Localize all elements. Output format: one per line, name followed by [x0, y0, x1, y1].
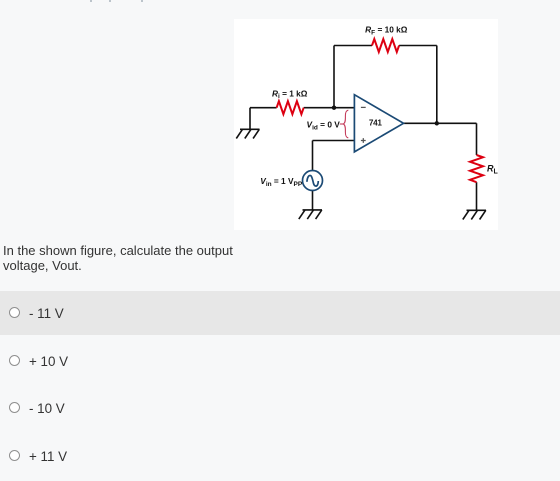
brace tick [340, 123, 343, 125]
wire non-inverting input horizontal [313, 140, 355, 142]
wire feedback top left segment [334, 45, 372, 47]
option 1 label [29, 306, 64, 321]
resistor RL zigzag [470, 155, 483, 182]
resistor Ri zigzag [277, 101, 304, 114]
svg-text:741: 741 [369, 119, 383, 128]
wire feedback top right segment [399, 45, 437, 47]
svg-text:RF = 10 kΩ: RF = 10 kΩ [365, 25, 408, 37]
wire feedback right vertical [436, 46, 438, 124]
source Vin circle [303, 171, 323, 191]
option 2 radio [9, 355, 20, 366]
node output junction dot [435, 121, 439, 125]
wire feedback left vertical [333, 46, 335, 108]
option 1 radio [9, 307, 20, 318]
wire RL bottom [476, 182, 478, 210]
svg-text:Ri = 1 kΩ: Ri = 1 kΩ [272, 88, 308, 100]
ground source [299, 210, 322, 219]
brace Vid red [343, 110, 348, 138]
ground RL [463, 210, 486, 219]
op-amp minus sign [361, 106, 366, 108]
resistor RF zigzag [372, 39, 399, 52]
wire RL top [476, 123, 478, 155]
source sine wave [307, 175, 318, 186]
node input junction dot [332, 106, 336, 110]
question text [3, 243, 253, 273]
svg-text:Vid = 0 V: Vid = 0 V [307, 120, 341, 132]
option 1 highlight band [0, 291, 560, 335]
wire left ground stub [249, 108, 251, 130]
op-amp U1 triangle [354, 95, 403, 152]
wire input left from ground to Ri [250, 107, 277, 109]
option 4 label [29, 449, 67, 464]
option 4 radio [9, 450, 20, 461]
ground left [236, 129, 259, 138]
wire source bottom [312, 191, 314, 210]
op-amp plus sign [361, 138, 366, 143]
wire Ri to op-amp [304, 107, 355, 109]
cut-off text fragment marks at very top [90, 0, 92, 2]
wire output [404, 122, 477, 124]
svg-text:Vin = 1 VPP: Vin = 1 VPP [260, 176, 303, 188]
option 3 radio [9, 402, 20, 413]
wire source top [312, 141, 314, 171]
option 3 label [29, 401, 65, 416]
white figure panel [234, 19, 498, 230]
option 2 label [29, 354, 68, 369]
svg-text:RL: RL [487, 164, 498, 176]
